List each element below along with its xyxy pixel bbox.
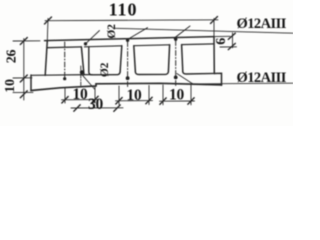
dim 6 top tick [228,33,235,39]
label O12AIII bottom text [237,70,287,86]
rib B axis dash-dot [127,42,129,88]
left dim mid tick [20,75,27,82]
dim 10 rib C extension left [162,85,164,105]
dim 110 left extension line [46,19,49,41]
panel left edge [45,41,47,76]
svg-text:110: 110 [109,0,138,20]
dim 10 rib C line [160,100,195,102]
leader diagonal to rib C bar [177,74,193,85]
dot on flange at rib A right [84,42,87,45]
svg-text:10: 10 [169,87,185,104]
panel right edge step [214,73,221,85]
dim 6 bottom extension [220,46,237,48]
dim 110 text [109,0,138,20]
leader diagonal from O2 upper to flange dot [86,31,100,44]
void1 bottom [92,72,120,75]
rib C bar dot [174,76,178,80]
dim 30 line [71,107,123,109]
left dim line vertical [23,39,25,100]
flange top edge [45,37,215,41]
void2 bottom [135,72,168,75]
flange underside right of rib C [182,43,214,46]
dim 110 right extension line [213,19,215,37]
rib C left face [168,45,169,72]
dim 6 line [232,33,234,48]
dim 10 rib A line [62,99,99,101]
dim 10 rib A extension left [64,88,66,103]
svg-text:10: 10 [126,87,142,104]
void1 left wall [89,47,92,75]
leader branch slash to rib C dot [174,26,190,38]
dot at rib A bottom right [80,70,84,74]
leader line from O2 label to O12AIII top [115,28,293,33]
rib C axis dash-dot [175,41,177,88]
leader underline O12AIII bottom [186,82,293,85]
void3 bottom [183,72,215,74]
rib B right face [134,46,136,72]
dim 10 rib B text [126,87,142,104]
dim 10 rib B extension right [148,86,150,105]
svg-text:6: 6 [214,38,229,45]
rotated label O2 upper [106,24,118,39]
dim 6 text rotated [214,38,229,45]
dim 110 line [45,19,218,22]
dim 30 tick right [114,105,120,112]
svg-text:10: 10 [72,86,88,103]
dim 6 bottom tick [228,43,235,49]
svg-text:Ø12AIII: Ø12AIII [237,16,287,32]
left dim bottom extension [13,91,33,93]
flange underside between rib A and void1 wall [85,46,122,47]
dim 10 rib A tick right [92,96,98,103]
dim 10 rib A extension right [94,86,96,103]
dim 26 text rotated [4,50,19,64]
dim 10 rib B line [116,100,153,102]
leader diagonal from rib A corner into slab [82,75,95,89]
left dim top extension [13,40,40,42]
dim 110 left tick [45,17,52,24]
dim 10 rib C tick left [160,98,166,105]
rotated label O2 lower [99,62,111,77]
dim 30 text [88,96,104,113]
rib A axis dash-dot [64,42,66,77]
rib A underside top (flange underside over rib A) [48,46,82,49]
left ledge top / slab top line through pedestal [31,74,92,77]
svg-text:Ø2: Ø2 [106,24,118,39]
rib B left face [120,46,122,72]
flange underside between rib B and rib C [134,44,170,47]
dim 10 rib C extension right [190,85,192,105]
dim 10 rib A tick left [62,97,68,104]
rib C right face [182,45,183,72]
rib B bar dot [126,76,130,80]
bar axis at rib A right [80,66,82,86]
left dim mid extension [13,77,32,79]
svg-text:26: 26 [4,50,19,64]
svg-text:30: 30 [88,96,104,113]
left ledge left edge [30,75,32,91]
dim 10 rib C text [169,87,185,104]
slab bottom edge [31,83,222,90]
dim 6 top extension [214,35,230,37]
dim 10 rib B tick right [146,97,152,104]
dim 10 rib B extension left [118,86,120,105]
dim 110 right tick [211,17,218,24]
dim 10 rib C tick right [188,98,194,105]
leader branch slash to rib B dot [128,28,148,40]
rib A bar dot [63,77,66,80]
dot on flange top at rib C axis [174,38,177,41]
svg-text:10: 10 [3,79,18,93]
dot on flange top at rib B axis [126,39,129,42]
left dim bottom tick [20,91,27,98]
label O12AIII top text [237,16,287,32]
dim 10 left text rotated [3,79,18,93]
rib A right face [81,47,84,75]
panel right edge upper [213,37,215,74]
dim 10 rib B tick left [116,98,122,105]
dim 30 tick left [74,105,80,112]
dim 10 rib A text [72,86,88,103]
left dim top tick [20,38,27,45]
